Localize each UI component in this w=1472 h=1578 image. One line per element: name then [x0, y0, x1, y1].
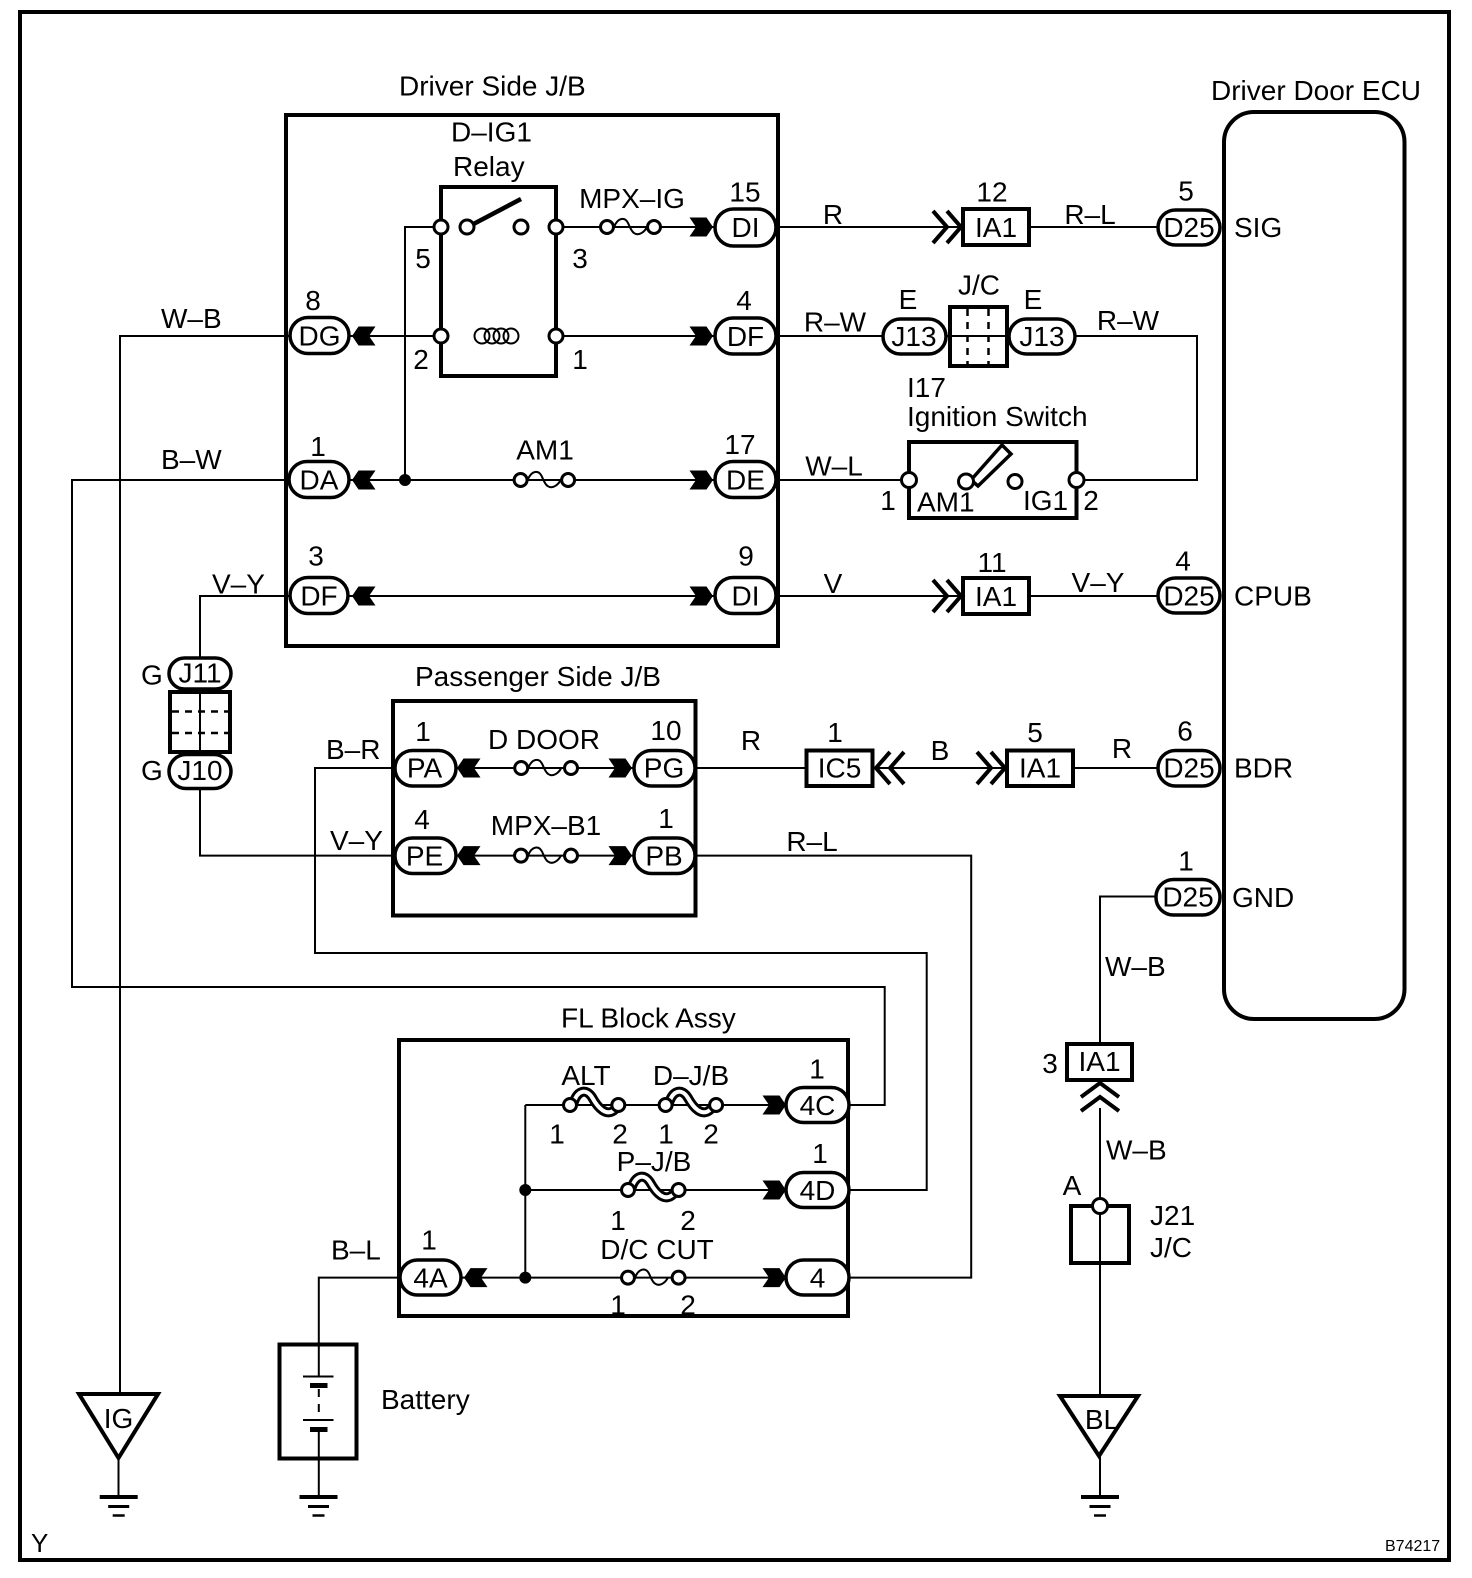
D25 6 oval [1158, 751, 1220, 787]
relay coil [475, 329, 519, 344]
wire row A: DI15 to IA1-12 [776, 226, 963, 228]
svg-text:G: G [141, 755, 163, 786]
svg-text:IG1: IG1 [1023, 485, 1068, 516]
svg-text:E: E [1024, 284, 1043, 315]
oval DI 15 [715, 209, 776, 246]
oval 4 [786, 1260, 849, 1295]
wire W-B: IA1-3 chevrons down to J21 J/C [1099, 1108, 1101, 1200]
svg-text:PG: PG [644, 753, 684, 784]
svg-text:R: R [823, 199, 843, 230]
svg-text:W–B: W–B [1105, 951, 1166, 982]
oval DE 17 [715, 462, 776, 498]
relay contact pivot [460, 220, 474, 234]
svg-text:B: B [931, 735, 950, 766]
wire: BL triangle tip to ground [1099, 1456, 1101, 1495]
svg-text:J10: J10 [177, 755, 222, 786]
IC5 box [807, 751, 873, 787]
svg-text:P–J/B: P–J/B [617, 1146, 692, 1177]
svg-text:1: 1 [880, 485, 896, 516]
Driver Door ECU box [1224, 112, 1405, 1019]
svg-text:Relay: Relay [453, 151, 525, 182]
svg-text:ALT: ALT [561, 1060, 610, 1091]
D25 4 oval [1158, 578, 1220, 613]
svg-text:2: 2 [680, 1205, 696, 1236]
fuse D/C CUT [635, 1270, 668, 1285]
svg-text:A: A [1063, 1170, 1082, 1201]
relay contact pin 3 [549, 220, 563, 234]
oval J10 [169, 755, 231, 789]
svg-text:Ignition Switch: Ignition Switch [907, 401, 1088, 432]
svg-text:9: 9 [738, 541, 754, 572]
battery plate short thick bottom [310, 1427, 328, 1432]
fuse MPX-B1 [528, 848, 561, 863]
svg-text:1: 1 [572, 344, 588, 375]
oval 4D [786, 1173, 849, 1208]
svg-text:IC5: IC5 [818, 753, 862, 784]
svg-text:MPX–IG: MPX–IG [579, 183, 685, 214]
Battery box [280, 1345, 357, 1459]
wire V-Y net lower: J10 to PE [200, 786, 395, 856]
svg-text:FL Block Assy: FL Block Assy [561, 1003, 736, 1034]
arrow into 4C [763, 1096, 787, 1115]
svg-text:D25: D25 [1163, 753, 1214, 784]
arrow into DA [352, 471, 376, 490]
ignition switch blade [971, 445, 1011, 486]
wire row B: J13 through I17 J/C to J13 [944, 335, 1011, 337]
chevrons after IC5 [876, 752, 904, 784]
arrow into DG [352, 327, 376, 346]
arrow into PG [609, 759, 633, 778]
wire B-L net: 4A to battery [319, 1278, 401, 1344]
svg-text:R–W: R–W [804, 307, 867, 338]
svg-text:3: 3 [572, 243, 588, 274]
wire GND: D25-1 to IA1-3 [1100, 897, 1158, 1047]
I17 J/C junction block [950, 307, 1007, 366]
oval DF 3 [290, 578, 348, 614]
wire row A: relay pin3 to DI15 [556, 226, 714, 228]
battery plate long top [303, 1376, 334, 1378]
svg-text:G: G [141, 660, 163, 691]
oval J11 [169, 658, 231, 689]
svg-text:1: 1 [610, 1205, 626, 1236]
J21 J/C box [1071, 1206, 1129, 1263]
svg-text:2: 2 [703, 1119, 719, 1150]
wire row A: IA1-12 to D25-5 [1029, 226, 1158, 228]
ignition switch pin 2 circle [1069, 473, 1084, 488]
svg-text:PA: PA [407, 753, 443, 784]
svg-text:E: E [899, 284, 918, 315]
wire battery internal top [318, 1344, 320, 1377]
ignition switch AM1 contact [959, 474, 974, 489]
svg-text:1: 1 [658, 1119, 674, 1150]
svg-text:R–W: R–W [1097, 305, 1160, 336]
svg-text:Y: Y [31, 1528, 48, 1558]
relay contact pin 5 [434, 220, 448, 234]
relay contact fixed [514, 220, 528, 234]
svg-text:Battery: Battery [381, 1384, 470, 1415]
svg-text:AM1: AM1 [917, 487, 975, 518]
svg-text:4: 4 [736, 285, 752, 316]
svg-text:D25: D25 [1163, 212, 1214, 243]
relay D-IG1 box [441, 187, 556, 376]
chevrons below IA1-3 pointing up [1081, 1083, 1119, 1111]
wire R-W net: J13 right to ignition switch pin 2 [1071, 336, 1197, 480]
wire row F: PE to MPX-B1 fuse to PB [454, 855, 635, 857]
battery plate long bottom [303, 1419, 334, 1421]
fuse AM1 [528, 472, 561, 487]
relay switch blade [464, 199, 521, 229]
svg-text:4: 4 [1175, 546, 1191, 577]
J13 right oval [1009, 319, 1075, 354]
fuse D DOOR [528, 760, 561, 775]
wire FL block feed vertical [524, 1105, 526, 1278]
svg-text:DF: DF [727, 321, 764, 352]
svg-text:1: 1 [812, 1138, 828, 1169]
WIRES-LAYER [72, 227, 1197, 1495]
wire: IG triangle tip to ground [118, 1458, 120, 1495]
arrow into DI15 [690, 218, 714, 237]
svg-text:BL: BL [1085, 1404, 1119, 1435]
svg-text:R: R [1112, 733, 1132, 764]
svg-text:J21: J21 [1150, 1200, 1195, 1231]
svg-text:2: 2 [1083, 485, 1099, 516]
svg-text:10: 10 [650, 715, 681, 746]
junction dot FL feed row H [519, 1184, 531, 1196]
oval PB 1 [634, 838, 695, 874]
ignition switch IG1 contact [1008, 475, 1022, 489]
svg-text:D–J/B: D–J/B [653, 1060, 729, 1091]
svg-text:4: 4 [810, 1263, 826, 1294]
svg-text:DI: DI [732, 581, 760, 612]
svg-text:V–Y: V–Y [330, 825, 383, 856]
svg-text:B–L: B–L [331, 1235, 381, 1266]
FL Block Assy box [399, 1040, 848, 1316]
battery dashed link [318, 1389, 320, 1416]
svg-text:AM1: AM1 [516, 435, 574, 466]
oval DF 4 [715, 318, 776, 354]
svg-text:5: 5 [415, 243, 431, 274]
svg-text:R–L: R–L [786, 826, 837, 857]
wire battery bottom to ground [318, 1430, 320, 1496]
relay coil pin 2 [434, 329, 448, 343]
svg-text:DA: DA [300, 465, 339, 496]
ground below IG [100, 1497, 138, 1516]
J21 pin A circle [1093, 1199, 1108, 1214]
wire row D: IA1-11 to D25-4 [1029, 595, 1158, 597]
svg-text:J/C: J/C [1150, 1232, 1192, 1263]
svg-text:V–Y: V–Y [212, 569, 265, 600]
oval DI 9 [715, 578, 776, 614]
svg-text:11: 11 [977, 547, 1006, 578]
svg-text:Driver Door ECU: Driver Door ECU [1211, 75, 1421, 106]
svg-text:DG: DG [299, 321, 341, 352]
oval 4A [400, 1260, 461, 1295]
svg-text:V: V [824, 568, 843, 599]
svg-text:5: 5 [1027, 717, 1043, 748]
arrow into 4A [464, 1268, 488, 1287]
svg-text:1: 1 [421, 1225, 437, 1256]
svg-text:IA1: IA1 [1078, 1046, 1120, 1077]
oval 4C [786, 1088, 849, 1123]
J11/J10 J/C junction block [170, 692, 230, 752]
oval PG 10 [634, 751, 695, 787]
svg-text:IA1: IA1 [975, 581, 1017, 612]
arrow into DF4 [690, 327, 714, 346]
svg-text:R: R [741, 725, 761, 756]
fusible link P-J/B [632, 1177, 674, 1198]
wire row G: feed to ALT fuse to D-J/B fuse to 4C [525, 1104, 787, 1106]
svg-text:Passenger Side J/B: Passenger Side J/B [415, 661, 661, 692]
svg-text:1: 1 [827, 717, 843, 748]
svg-text:J13: J13 [891, 321, 936, 352]
IA1 11 box [963, 578, 1029, 614]
Driver Side J/B box [286, 115, 778, 646]
IA1 12 box [963, 209, 1029, 245]
svg-text:5: 5 [1178, 176, 1194, 207]
wire R-L net: PB to 4 of FL block [695, 856, 971, 1278]
arrow into PB [609, 846, 633, 865]
svg-text:IG: IG [104, 1403, 134, 1434]
wire row B: DG to relay pin2 [349, 335, 441, 337]
oval PA 1 [395, 751, 456, 787]
IA1 3 box [1067, 1044, 1132, 1080]
svg-text:DI: DI [732, 212, 760, 243]
svg-text:B74217: B74217 [1385, 1538, 1440, 1555]
arrow into PE [457, 846, 481, 865]
wire row D: DI9 to IA1-11 [776, 595, 963, 597]
J13 left oval [883, 319, 946, 354]
junction dot FL feed row I [519, 1272, 531, 1284]
svg-text:4C: 4C [800, 1090, 836, 1121]
svg-text:B–R: B–R [326, 734, 380, 765]
chevrons before IA1-5 [977, 752, 1005, 784]
svg-text:J/C: J/C [958, 270, 1000, 301]
svg-text:8: 8 [305, 285, 321, 316]
wire W-B net: DG to IG triangle [120, 336, 290, 1394]
svg-text:GND: GND [1232, 882, 1294, 913]
wire row H: feed to P-J/B fuse to 4D [525, 1189, 787, 1191]
svg-text:1: 1 [1178, 846, 1194, 877]
svg-text:2: 2 [413, 344, 429, 375]
wire: J21 J/C through box down to BL triangle [1099, 1213, 1101, 1396]
wire B-R net: PA to 4D of FL block [315, 768, 927, 1190]
svg-text:DE: DE [726, 465, 765, 496]
D25 5 oval [1158, 210, 1220, 245]
svg-text:3: 3 [308, 541, 324, 572]
chevrons before IA1-12 [933, 211, 961, 243]
svg-text:V–Y: V–Y [1072, 567, 1125, 598]
wire row E: IA1-5 to D25-6 [1073, 767, 1158, 769]
svg-text:4: 4 [414, 804, 430, 835]
svg-text:4D: 4D [800, 1175, 836, 1206]
svg-text:Driver Side J/B: Driver Side J/B [399, 71, 586, 102]
svg-text:6: 6 [1177, 716, 1193, 747]
svg-text:B–W: B–W [161, 444, 222, 475]
fuse MPX-IG [614, 219, 647, 234]
arrow into DI9 [690, 587, 714, 606]
wire row E: PG to IC5 [695, 767, 806, 769]
svg-text:1: 1 [610, 1290, 626, 1321]
wire row C: DE to ignition switch pin 1 [776, 479, 909, 481]
battery plate short thick [310, 1383, 328, 1388]
oval DA 1 [289, 462, 349, 498]
BL triangle [1060, 1396, 1138, 1456]
svg-text:DF: DF [300, 581, 337, 612]
svg-text:1: 1 [549, 1119, 565, 1150]
arrow into DE [690, 471, 714, 490]
svg-text:PB: PB [645, 841, 682, 872]
svg-text:D DOOR: D DOOR [488, 724, 600, 755]
wire row C: DA to AM1 fuse to DE [349, 479, 714, 481]
oval PE 4 [395, 838, 456, 874]
svg-text:SIG: SIG [1234, 212, 1282, 243]
svg-text:J11: J11 [178, 658, 221, 689]
wire row I: 4A to D/C CUT fuse to 4 [460, 1277, 787, 1279]
svg-text:1: 1 [415, 716, 431, 747]
svg-text:D25: D25 [1163, 581, 1214, 612]
svg-text:12: 12 [976, 177, 1007, 208]
Ignition Switch box [909, 442, 1077, 518]
svg-text:IA1: IA1 [975, 212, 1017, 243]
svg-text:3: 3 [1042, 1048, 1058, 1079]
relay coil pin 1 [549, 329, 563, 343]
svg-text:15: 15 [729, 177, 760, 208]
wire B-W net: DA to 4C of FL block [72, 480, 885, 1105]
wire through J21 box [1099, 1206, 1101, 1263]
arrow into 4D [763, 1181, 787, 1200]
svg-text:PE: PE [406, 841, 443, 872]
svg-text:2: 2 [612, 1119, 628, 1150]
svg-text:2: 2 [680, 1290, 696, 1321]
wire row E: IC5 to IA1-5 [872, 767, 1007, 769]
chevrons before IA1-11 [933, 580, 961, 612]
oval DG 8 [290, 318, 349, 354]
ignition switch pin 1 circle [902, 473, 917, 488]
wire row E: PA to D DOOR fuse to PG [454, 767, 635, 769]
svg-text:1: 1 [658, 803, 674, 834]
wire row B: DF4 to J13 left [776, 335, 884, 337]
svg-text:CPUB: CPUB [1234, 581, 1312, 612]
svg-text:4A: 4A [413, 1263, 448, 1294]
fusible link D-J/B [669, 1092, 711, 1113]
junction dot on DA wire [399, 474, 411, 486]
svg-text:BDR: BDR [1234, 753, 1293, 784]
ground below battery [300, 1497, 338, 1516]
ground below BL [1081, 1497, 1119, 1516]
svg-text:D–IG1: D–IG1 [451, 117, 532, 148]
svg-text:D25: D25 [1162, 882, 1213, 913]
svg-text:17: 17 [724, 429, 755, 460]
wire row D: DF3 to DI9 [348, 595, 714, 597]
svg-text:1: 1 [809, 1054, 825, 1085]
arrow into PA [457, 759, 481, 778]
svg-text:W–B: W–B [161, 303, 222, 334]
arrow into 4 [763, 1268, 787, 1287]
wire relay pin5 elbow down to DA row junction [405, 227, 441, 480]
svg-text:J13: J13 [1019, 321, 1064, 352]
Passenger Side J/B box [393, 701, 696, 916]
svg-text:W–L: W–L [805, 451, 863, 482]
svg-text:W–B: W–B [1106, 1135, 1167, 1166]
D25 1 GND oval [1156, 880, 1220, 916]
svg-text:D/C CUT: D/C CUT [600, 1234, 714, 1265]
svg-text:1: 1 [310, 431, 326, 462]
IA1 5 box [1007, 751, 1073, 787]
wire row B: relay pin1 to DF4 [556, 335, 714, 337]
svg-text:MPX–B1: MPX–B1 [491, 810, 602, 841]
arrow into DF3 [352, 587, 376, 606]
svg-text:IA1: IA1 [1019, 753, 1061, 784]
svg-text:I17: I17 [907, 372, 946, 403]
svg-text:R–L: R–L [1064, 199, 1115, 230]
fusible link ALT [574, 1092, 616, 1113]
wire V-Y net: DF3 down through J11/J10 to PE [200, 596, 291, 660]
IG triangle [79, 1394, 158, 1458]
